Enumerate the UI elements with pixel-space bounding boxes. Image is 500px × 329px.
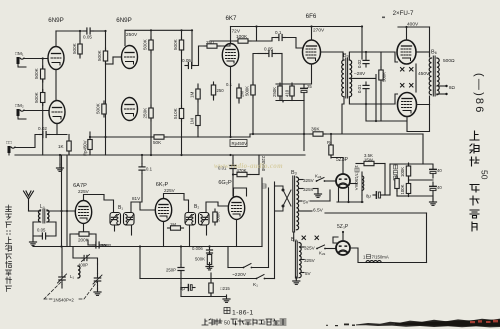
wire primary vertical bbox=[274, 182, 276, 279]
wire 6A7P cathode bbox=[83, 224, 85, 231]
svg-text:□□: □□ bbox=[6, 141, 12, 146]
svg-text:6N9P: 6N9P bbox=[48, 17, 63, 24]
svg-text:72V: 72V bbox=[232, 29, 241, 35]
tap B4 5V bbox=[302, 272, 305, 274]
svg-text:270V: 270V bbox=[313, 28, 325, 34]
transformer B2 IF secondary can bbox=[199, 213, 210, 226]
jack phono input bbox=[8, 146, 16, 155]
wire 6F6 top to B+ bbox=[311, 27, 313, 41]
wire mains sw1 bbox=[227, 247, 229, 268]
node jack1 junction bbox=[42, 57, 44, 59]
svg-text:0.1: 0.1 bbox=[146, 167, 153, 172]
wire V2a plate to top bbox=[124, 30, 126, 45]
tube V1b 6N9P triode bbox=[49, 101, 65, 124]
resistor 1K bbox=[67, 138, 71, 154]
wire coupling to 6K7 bbox=[191, 30, 193, 65]
wire B2 links bbox=[184, 194, 189, 213]
wire 6G2P grid frame bbox=[234, 188, 247, 196]
caption bottom pseudo chinese bbox=[202, 319, 222, 325]
tube V4 6F6 pentode bbox=[303, 40, 321, 64]
resistor 1M phase inv upper bbox=[197, 84, 199, 86]
wire mid junction down bbox=[366, 104, 407, 121]
svg-text:1-86-1: 1-86-1 bbox=[232, 310, 253, 317]
svg-text:K₁: K₁ bbox=[253, 282, 258, 288]
capacitor 400P padder bbox=[82, 255, 90, 262]
capacitor 40u upper bbox=[430, 165, 436, 178]
svg-text:□215: □215 bbox=[220, 286, 230, 291]
capacitor 0.02 grid1 bbox=[363, 57, 369, 67]
svg-text:5V: 5V bbox=[303, 200, 310, 205]
tap B4 325V b bbox=[302, 259, 305, 261]
resistor 1M phase inv lower bbox=[197, 99, 199, 112]
wire FU7 plate top bbox=[406, 27, 408, 40]
resistor 500K plate load bbox=[79, 31, 81, 41]
tube V1a 6N9P triode bbox=[48, 47, 64, 70]
dashed gang link bbox=[44, 281, 98, 299]
svg-text:6F6: 6F6 bbox=[306, 13, 317, 20]
resistor 250 grid stopper bbox=[204, 44, 220, 48]
svg-text:325V: 325V bbox=[303, 187, 315, 192]
svg-text:325V: 325V bbox=[304, 246, 316, 251]
capacitor 25u bypass bbox=[301, 85, 307, 96]
wire top bus stage2 bbox=[125, 29, 192, 31]
wire to 6K7 grid cap bbox=[195, 46, 204, 66]
ground bus left bbox=[15, 154, 305, 156]
ground symbol bus bbox=[59, 155, 61, 165]
svg-text:450V: 450V bbox=[418, 71, 430, 77]
wire B0 secondary top bbox=[349, 52, 366, 60]
svg-text:410: 410 bbox=[285, 89, 290, 97]
svg-text:–28V: –28V bbox=[354, 71, 366, 77]
svg-text:500K: 500K bbox=[96, 102, 101, 114]
wire right vertical down bbox=[426, 213, 428, 263]
wire rect1 cathode stubs bbox=[338, 188, 340, 203]
wire box right 6K7 bbox=[256, 27, 258, 42]
wire B1 top links bbox=[104, 195, 114, 213]
svg-text:250: 250 bbox=[217, 88, 225, 93]
capacitor 40u lower bbox=[430, 182, 436, 195]
svg-text:(—)86: (—)86 bbox=[473, 73, 485, 115]
wire 400V top run bbox=[398, 26, 430, 28]
wire cathode runs bbox=[415, 64, 417, 92]
antenna bbox=[24, 191, 34, 211]
X marks B4 bbox=[302, 236, 319, 240]
resistor 500K grid leak 1 bbox=[41, 66, 45, 82]
ground B4 bbox=[295, 278, 297, 279]
wire coupling down to V2 grid bbox=[105, 31, 107, 155]
wire long vertical left a bbox=[61, 155, 63, 247]
node bus junctions bbox=[150, 29, 152, 31]
transformer B4 power bbox=[294, 241, 296, 278]
wire to coupling cap 0.1 bbox=[272, 38, 276, 42]
svg-text:B₃: B₃ bbox=[291, 170, 297, 176]
label fig number 图1-86-1 bbox=[224, 308, 230, 314]
svg-text:500K: 500K bbox=[245, 86, 250, 96]
svg-text:25: 25 bbox=[307, 84, 312, 89]
wire cathode bottom tie bbox=[276, 100, 304, 102]
wire L0 to 6A7P grid bbox=[47, 210, 75, 212]
tap 6.5V bbox=[299, 210, 312, 212]
svg-text:40: 40 bbox=[437, 168, 442, 173]
resistor 100K bias upper bbox=[408, 164, 410, 166]
wire jack2 to V1b grid bbox=[24, 110, 49, 112]
wire plate row 6K7 bbox=[210, 40, 235, 42]
transformer B3 power bbox=[292, 176, 294, 232]
switch K1 bbox=[256, 278, 258, 280]
label mains rotated bbox=[261, 156, 266, 188]
tube V8 6K7P bbox=[155, 199, 171, 222]
resistor 50K mid bus bbox=[151, 135, 167, 139]
variable capacitor gang 2 bbox=[93, 274, 102, 286]
svg-text:6K7: 6K7 bbox=[225, 15, 237, 22]
scan smudge bottom right bbox=[356, 319, 500, 328]
tube V6 FU-7 lower bbox=[398, 93, 417, 117]
svg-text:L₀: L₀ bbox=[40, 204, 45, 210]
capacitor 200P bbox=[93, 242, 103, 248]
svg-text:B₆: B₆ bbox=[431, 50, 437, 56]
svg-text:5Z3P: 5Z3P bbox=[336, 157, 349, 163]
svg-text:1M: 1M bbox=[190, 118, 195, 125]
resistor 1M det bbox=[168, 226, 184, 230]
transformer B1 IF primary can bbox=[110, 213, 121, 226]
svg-text:8Ω: 8Ω bbox=[449, 85, 456, 90]
resistor 500K mid bbox=[253, 54, 258, 86]
svg-text:www.radio-audio.com: www.radio-audio.com bbox=[214, 162, 283, 170]
svg-text:250K: 250K bbox=[272, 87, 277, 97]
node bus dots bbox=[60, 245, 62, 247]
tube V2b 6N9P triode bbox=[122, 98, 138, 121]
wire plate V1a to top bbox=[55, 31, 57, 47]
svg-text:100K: 100K bbox=[400, 184, 405, 194]
svg-text:7/150mA: 7/150mA bbox=[354, 173, 359, 190]
svg-text:250K: 250K bbox=[143, 107, 148, 119]
transformer B0 interstage bbox=[342, 60, 344, 97]
svg-text:K₂ₑ: K₂ₑ bbox=[319, 251, 326, 256]
wire B0 secondary bottom bbox=[349, 97, 366, 104]
wire B+ top bus long bbox=[231, 26, 363, 28]
wire B1 bottom stubs bbox=[114, 225, 116, 231]
wire FU7 lower plate to B6 bottom bbox=[417, 96, 430, 105]
svg-text:6G₂P: 6G₂P bbox=[218, 180, 232, 186]
svg-text:500K: 500K bbox=[34, 67, 39, 79]
wire rect2 top bbox=[342, 232, 344, 241]
tap 325V a bbox=[299, 179, 303, 181]
svg-text:50: 50 bbox=[224, 321, 230, 327]
ground bias network bbox=[430, 198, 437, 205]
wire 6A7P plate top bbox=[84, 195, 105, 201]
variable capacitor gang 1 bbox=[58, 273, 67, 285]
wire box left 6K7 bbox=[230, 27, 232, 44]
wire B3-B4 link bbox=[293, 232, 295, 241]
svg-text:510K: 510K bbox=[173, 107, 178, 119]
tap 325V b bbox=[299, 188, 303, 190]
tube V9 6G2P bbox=[228, 197, 244, 220]
ground gang bbox=[94, 288, 101, 295]
wire bottom tie bbox=[195, 287, 211, 289]
jack M2 mic input bbox=[17, 109, 27, 119]
resistor 250K cathode bbox=[279, 84, 281, 86]
capacitor 8u cathode bbox=[180, 274, 182, 284]
svg-text:100K: 100K bbox=[400, 167, 405, 177]
wire grid leak vertical bbox=[42, 59, 44, 156]
svg-text:Rp450V: Rp450V bbox=[83, 140, 88, 156]
wire B0 secondary mid bbox=[349, 74, 376, 121]
right margin pseudo chinese column 上海牌50瓦扩音机 bbox=[470, 131, 479, 166]
wire mid bus left bbox=[90, 136, 151, 138]
wire grid1 to FU7 bbox=[366, 51, 395, 53]
svg-text:500K: 500K bbox=[382, 72, 387, 82]
label indicator rotated bbox=[394, 165, 398, 180]
svg-text:0.05: 0.05 bbox=[182, 58, 191, 63]
switch K2a bbox=[316, 180, 318, 182]
wire to 6G2P grid bbox=[218, 202, 228, 206]
svg-text:Rp450V: Rp450V bbox=[232, 141, 248, 146]
resistor 250 screen bbox=[213, 84, 215, 85]
wire long vertical left b bbox=[66, 155, 68, 247]
ground bottom center bbox=[223, 295, 230, 302]
fuse lamp vertical bbox=[362, 172, 364, 195]
wire 6G2P plate up bbox=[232, 171, 234, 196]
svg-text:0.02: 0.02 bbox=[38, 126, 47, 131]
speaker terminals bbox=[437, 85, 445, 87]
svg-text:B₂: B₂ bbox=[194, 204, 199, 210]
wire 6F6 cathode run bbox=[276, 64, 312, 84]
tube V2a 6N9P triode bbox=[122, 46, 138, 69]
svg-text:225V: 225V bbox=[78, 189, 90, 194]
svg-text:400V: 400V bbox=[407, 22, 419, 28]
wire long vertical right bbox=[422, 134, 424, 164]
wire 200K links bbox=[70, 234, 76, 247]
ground ant bbox=[32, 236, 34, 240]
wire top bus stage1 bbox=[56, 30, 85, 32]
svg-text:500K: 500K bbox=[216, 212, 221, 222]
wire phono to cap bbox=[15, 135, 40, 148]
svg-text:1M: 1M bbox=[190, 91, 195, 98]
wire FU7 lower bottom down bbox=[407, 105, 430, 132]
wire receiver bus bbox=[33, 246, 262, 248]
wire grid tap to V2 bbox=[106, 63, 114, 65]
svg-text:81V: 81V bbox=[132, 196, 141, 201]
boxed label Rp450V bbox=[230, 140, 247, 147]
tap B4 325V a bbox=[302, 246, 305, 248]
svg-text:0.1: 0.1 bbox=[226, 82, 233, 87]
resistor 500K plate V2b bbox=[181, 30, 183, 39]
svg-text:36K: 36K bbox=[311, 127, 320, 133]
svg-text:0.05: 0.05 bbox=[83, 35, 92, 40]
node plate junction bbox=[79, 30, 81, 32]
svg-text:500K: 500K bbox=[97, 49, 102, 61]
capacitor 0.01 grid2 bbox=[363, 82, 369, 92]
wire bias mid tie bbox=[409, 179, 434, 181]
wire to 6K7P grid bbox=[140, 202, 155, 210]
capacitor 250P bbox=[180, 247, 182, 265]
svg-text:2×FU-7: 2×FU-7 bbox=[393, 10, 414, 17]
tap 5V bbox=[299, 200, 302, 202]
jack M1 mic input bbox=[17, 57, 27, 67]
svg-text:0.05: 0.05 bbox=[37, 228, 46, 233]
svg-text:50: 50 bbox=[480, 170, 490, 180]
svg-text:0.1: 0.1 bbox=[275, 30, 282, 35]
svg-text:250P: 250P bbox=[166, 268, 176, 273]
svg-text:B₄: B₄ bbox=[291, 237, 298, 243]
svg-text:500K: 500K bbox=[72, 42, 77, 54]
svg-text:225V: 225V bbox=[164, 188, 176, 193]
wire mains vertical bbox=[261, 178, 263, 247]
resistor 500K grid leak 2 bbox=[41, 90, 45, 106]
potentiometer Rp volume bbox=[88, 137, 92, 153]
svg-text:0.006: 0.006 bbox=[192, 246, 203, 251]
capacitor 0.05 coupling bbox=[84, 28, 94, 34]
wire jack1 to grid bbox=[24, 58, 48, 60]
resistor 500K decoupling bbox=[150, 30, 152, 39]
wire mains sw2 bbox=[140, 278, 256, 280]
wire gang links bbox=[61, 247, 63, 273]
wire V1b cathode to bus bbox=[56, 124, 58, 135]
svg-text:15W: 15W bbox=[364, 158, 374, 163]
svg-text:1M: 1M bbox=[170, 222, 176, 227]
label 1bai7/150mA rotated bbox=[354, 165, 359, 190]
transformer B6 output bbox=[429, 58, 431, 95]
svg-text:6N9P: 6N9P bbox=[116, 17, 131, 24]
scan smudge specks bbox=[326, 324, 355, 327]
wire bias network top bbox=[390, 163, 433, 165]
left margin pseudo chinese 生产厂 上海广播器材厂 bbox=[6, 205, 12, 292]
resistor bias aux bbox=[395, 176, 399, 192]
resistor 3.5K 15W bbox=[356, 163, 361, 165]
resistor 250K bbox=[149, 105, 153, 121]
wire rect1 right bbox=[350, 183, 357, 185]
svg-text:500K: 500K bbox=[195, 257, 205, 262]
svg-text:100K: 100K bbox=[236, 34, 248, 40]
resistor Rx to rectifier bbox=[330, 134, 332, 145]
resistor 36K bbox=[310, 132, 326, 136]
svg-text:500K: 500K bbox=[173, 38, 178, 50]
transformer B1 IF secondary can bbox=[124, 213, 135, 226]
transformer B2 IF primary can bbox=[185, 213, 196, 226]
svg-text:7/150mA: 7/150mA bbox=[372, 255, 389, 260]
svg-text:K₂ₐ: K₂ₐ bbox=[315, 174, 322, 179]
svg-text:500K: 500K bbox=[143, 38, 148, 50]
primary crossed wires bbox=[275, 186, 292, 211]
svg-text:5V: 5V bbox=[305, 271, 312, 276]
resistor 500K det bbox=[213, 209, 217, 225]
resistor 100K bbox=[235, 39, 251, 43]
wire FU7 upper plate to B6 bbox=[416, 51, 430, 53]
resistor 470 bbox=[291, 84, 293, 86]
svg-text:8μ: 8μ bbox=[366, 194, 371, 199]
capacitor 0.1 coupling bbox=[276, 35, 286, 41]
svg-text:□M₁: □M₁ bbox=[15, 51, 24, 57]
resistor 500K grid V2 bbox=[103, 48, 107, 64]
svg-text:0.01: 0.01 bbox=[357, 84, 362, 93]
svg-text:5Z₃P: 5Z₃P bbox=[337, 224, 349, 230]
wire 6K7 cathode down bbox=[230, 67, 232, 138]
svg-text:400P: 400P bbox=[78, 263, 88, 268]
top small speck bbox=[382, 17, 385, 19]
wire 6K7P plate top bbox=[164, 194, 185, 199]
svg-text:325V: 325V bbox=[304, 258, 316, 263]
svg-text:~220V: ~220V bbox=[232, 272, 247, 278]
resistor 100K bias lower bbox=[408, 176, 410, 184]
wire grid box between FU7s bbox=[395, 52, 398, 62]
wire V1b cathode-plate vertical bbox=[55, 70, 57, 101]
tube V10 5Z3P rectifier bbox=[336, 174, 350, 188]
capacitor 0.1 volume bbox=[139, 164, 145, 174]
svg-text:325V: 325V bbox=[303, 178, 315, 183]
svg-text:B₁: B₁ bbox=[118, 205, 123, 211]
tube V7 6A7P bbox=[75, 201, 91, 224]
wire grid cap to tube top bbox=[220, 44, 230, 46]
svg-text:250V: 250V bbox=[126, 32, 138, 38]
resistor 510K bbox=[179, 106, 183, 122]
resistor 500K det2 bbox=[207, 252, 211, 268]
svg-text:40: 40 bbox=[437, 185, 442, 190]
svg-text:L₁: L₁ bbox=[70, 274, 75, 279]
wire bias bottom tie bbox=[409, 195, 434, 197]
scan smudge red marks bbox=[470, 320, 498, 323]
wire 6F6 plate to B0 bbox=[321, 51, 344, 53]
switch mains a bbox=[243, 267, 245, 269]
resistor 2M bbox=[238, 84, 240, 88]
tube V3 6K7 pentode bbox=[222, 44, 238, 67]
resistor 200K osc bbox=[76, 232, 92, 236]
resistor cathode 6G2P bbox=[209, 280, 213, 296]
tube V11 5Z3P rectifier 2 bbox=[336, 241, 350, 255]
svg-text:□M₂: □M₂ bbox=[15, 103, 24, 109]
wire cap to 6F6 grid bbox=[286, 38, 303, 49]
wire mid bus right bbox=[250, 134, 310, 137]
svg-text:6.5V: 6.5V bbox=[313, 208, 324, 214]
switch K2b bbox=[316, 248, 318, 250]
ground det bbox=[206, 263, 213, 270]
svg-text:500K: 500K bbox=[34, 91, 39, 103]
svg-text:0.02: 0.02 bbox=[357, 59, 362, 68]
wire antenna to L0 bbox=[29, 210, 41, 212]
wire B+ down to B0 bbox=[361, 27, 363, 60]
wire B2 bottom stubs bbox=[189, 225, 191, 247]
tube V5 FU-7 upper bbox=[397, 40, 416, 64]
resistor 500K lower bbox=[102, 101, 106, 117]
svg-text:50K: 50K bbox=[153, 140, 162, 145]
svg-text:1K: 1K bbox=[58, 144, 65, 149]
filament X marks bbox=[401, 68, 414, 72]
svg-text:500Ω: 500Ω bbox=[443, 58, 455, 64]
transformer L0 antenna coil bbox=[39, 210, 41, 222]
resistor 500K bias bbox=[379, 67, 383, 83]
wire B0 primary bottom down bbox=[342, 97, 344, 134]
wire down to B6 bbox=[429, 27, 431, 57]
svg-text:1N540P×2: 1N540P×2 bbox=[53, 298, 74, 303]
